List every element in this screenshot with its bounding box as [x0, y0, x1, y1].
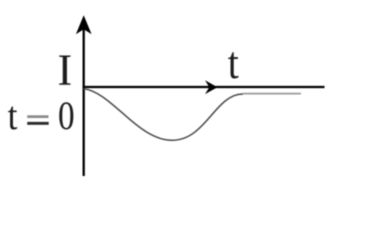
svg-text:I: I [57, 46, 72, 95]
vertical axis arrowhead [76, 15, 92, 34]
svg-text:t: t [228, 37, 239, 88]
horizontal axis (t axis) [83, 86, 325, 88]
vertical axis (I axis) [83, 28, 85, 176]
svg-text:0: 0 [58, 93, 75, 138]
svg-text:t: t [8, 93, 18, 138]
current curve (dip below axis) [84, 89, 243, 141]
equals sign lower bar [27, 122, 49, 125]
settled tail of curve [243, 93, 301, 95]
horizontal axis arrowhead [205, 80, 218, 94]
equals sign upper bar [27, 115, 48, 118]
